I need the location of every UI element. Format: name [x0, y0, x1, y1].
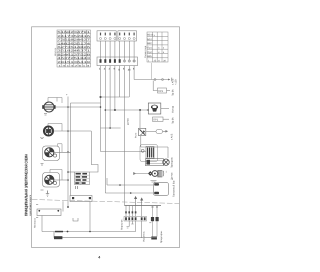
wire y103 link: [71, 102, 101, 104]
junction at (90,231.5): [89, 231, 91, 233]
fuse contact blocks: [151, 217, 154, 221]
wire fan to terminal: [161, 108, 170, 110]
svg-text:8246137528: 8246137528: [57, 53, 91, 56]
wire L2 to bus: [54, 179, 68, 181]
svg-text:ПРИНЦИПИАЛЬНАЯ ЭЛЕКТРИЧЕСКАЯ С: ПРИНЦИПИАЛЬНАЯ ЭЛЕКТРИЧЕСКАЯ СХЕМА: [24, 154, 29, 216]
junctions on bus x68: [67, 106, 69, 208]
box A lead stubs: [75, 186, 77, 189]
H1 bracket stub: [56, 98, 58, 102]
connector X1 housing (two blocks): [97, 31, 137, 41]
svg-text:Схема соед.: Схема соед.: [144, 45, 147, 58]
svg-text:1482635174: 1482635174: [57, 42, 91, 45]
svg-text:4: 4: [98, 256, 100, 260]
fuse F2: [153, 117, 164, 121]
svg-text:7351824637: 7351824637: [57, 39, 91, 42]
switch bank drop wires: [126, 206, 142, 217]
box C bottom-left: [37, 209, 61, 216]
svg-text:ПР1: ПР1: [153, 119, 159, 122]
cigarette lighter (cylinder): [146, 159, 164, 166]
ignition switch assembly: [140, 145, 158, 162]
fuel tank / battery box: [153, 183, 168, 196]
junction at (140,110): [139, 109, 141, 111]
box B clamp symbol: [73, 218, 78, 221]
junction at (100.5,97): [100, 96, 102, 98]
connector X2 pins 6-8 (sockets): [123, 60, 135, 62]
fuse legs: [153, 206, 158, 237]
M1 mounting mark: [41, 137, 44, 140]
box C side ticks: [36, 205, 38, 218]
wire from table T2 down: [151, 63, 153, 80]
junction at (100.5,107): [100, 106, 102, 108]
headlamp H1: [42, 98, 101, 116]
wire F2 to terminal: [163, 118, 169, 120]
relay/diode box K1: [139, 110, 141, 128]
horizontal link y97: [101, 96, 130, 98]
svg-text:6273514826: 6273514826: [57, 46, 91, 49]
wire M1 to regulator: [53, 130, 91, 132]
arrow terminal to battery: [168, 79, 170, 81]
fan unit box: [148, 103, 161, 114]
connector X1 pin marks 1-8: [100, 33, 135, 36]
bus vertical wires from X2: [101, 66, 135, 206]
svg-text:Указатель: Указатель: [143, 230, 146, 242]
svg-text:ВК5: ВК5: [147, 55, 152, 58]
junction at (67.5,231.5): [67, 231, 69, 233]
svg-text:ВК2: ВК2: [147, 42, 152, 45]
connector X2 housing: [97, 57, 138, 66]
labels under X2: [99, 68, 135, 72]
page background: [0, 0, 200, 272]
junction at (120,185): [119, 184, 121, 186]
up arrow riser 1: [135, 197, 137, 206]
wire bus to ignition switch S1: [101, 151, 147, 153]
table T1 (top-left pinout table): [57, 30, 91, 67]
table T2 cell text: [147, 34, 166, 63]
fuse leg terminals: [152, 206, 154, 208]
svg-text:Б14: Б14: [147, 38, 152, 41]
contact strip dark contacts: [125, 217, 146, 220]
fuel tank terminal blocks: [154, 183, 159, 186]
wire bus x70.5: [70, 103, 72, 196]
box C terminal dots: [38, 210, 40, 212]
sensor / starter lower: [134, 173, 149, 175]
ignition switch S1 contact stack: [146, 147, 154, 159]
wire down to box A: [90, 131, 99, 172]
fuse F3: [156, 130, 163, 134]
title text (vertical, rotated): [24, 154, 32, 216]
horizontal link y128: [101, 127, 121, 129]
horn/motor M1: [41, 124, 99, 173]
wire K1 to fuse F3: [146, 130, 156, 132]
switch bank contact strip: [124, 217, 147, 222]
junction at (68,172): [67, 171, 69, 173]
svg-text:Топливный бак: Топливный бак: [173, 179, 176, 197]
fuse foot block on ground bus: [151, 237, 157, 240]
tick mark: [149, 222, 151, 224]
junction at (110.1,128): [109, 127, 111, 129]
wire bus to box A: [68, 171, 75, 173]
table T2 (top-right): [147, 32, 168, 62]
svg-text:датчик: датчик: [127, 118, 130, 125]
svg-text:ПР2: ПР2: [158, 90, 164, 93]
wire drop to fuse F1: [153, 81, 157, 91]
H1 mounting marks: [44, 114, 47, 116]
dark segment on ground bus 1: [55, 231, 63, 233]
horizontal link y110 to fan box: [105, 109, 148, 111]
svg-text:5168234791: 5168234791: [57, 31, 91, 34]
S1 contact bars: [147, 148, 154, 158]
lamp unit L2: [41, 170, 69, 191]
lamp unit L1: [41, 144, 71, 165]
fuse F1 top right: [158, 88, 167, 93]
box B terminal squares: [72, 197, 74, 199]
wire H1 to bus: [56, 106, 101, 108]
connector X2 socket center pins: [124, 60, 135, 61]
svg-text:На массу: На массу: [34, 217, 37, 228]
svg-text:Датчик: Датчик: [171, 171, 174, 180]
svg-text:2815136419: 2815136419: [57, 61, 91, 64]
L2 bracket: [50, 170, 62, 181]
terminal circle (155,79.5): [154, 79, 156, 81]
svg-text:Прикурив.: Прикурив.: [171, 156, 174, 168]
svg-text:4637251843: 4637251843: [57, 57, 91, 60]
box A indicator circle: [80, 182, 82, 184]
wire y147: [141, 136, 168, 158]
up arrow riser 2: [141, 198, 143, 206]
ground bus wire 2: [54, 237, 157, 239]
wire box C to ground bus: [41, 216, 43, 232]
relay box B: [70, 196, 92, 202]
L1 mounting marks: [41, 164, 44, 166]
svg-text:Пр2: Пр2: [147, 51, 152, 54]
ignition terminal circle: [141, 149, 144, 152]
wire divider to box C: [62, 201, 64, 211]
switch bank top bar: [125, 205, 162, 207]
junction at (114.9,110): [114, 109, 116, 111]
divider dashed line: [32, 200, 179, 204]
connector X1 pin sockets 1-8: [99, 37, 135, 39]
wire y192 to fuel tank: [105, 192, 153, 194]
wire L1 to bus: [54, 151, 71, 153]
L2 mounting mark: [41, 189, 44, 191]
svg-text:Реле: Реле: [135, 132, 138, 138]
schematic border frame: [32, 27, 180, 248]
svg-text:2417352816: 2417352816: [57, 35, 91, 38]
svg-text:однокабинной модели: однокабинной модели: [29, 195, 32, 216]
wire with ground foot: [127, 221, 130, 228]
svg-text:Пр 8А: Пр 8А: [172, 89, 175, 96]
arrow terminal after F3: [163, 130, 168, 132]
terminal circle (162.5,79.5): [162, 79, 164, 81]
regulator box A (with glyphs): [75, 172, 90, 185]
right side labels: [171, 78, 178, 197]
wire to ground bus 1: [135, 221, 137, 232]
wire box B to ground bus: [89, 202, 91, 232]
svg-text:Пр 8А: Пр 8А: [172, 117, 175, 124]
table T1 cell text: [57, 31, 91, 67]
left vertical bus x68 / x70.5: [67, 97, 69, 208]
junction at (130.7,193): [130, 192, 132, 194]
switch bank upper contacts: [125, 211, 136, 213]
dark block on ground bus 2: [54, 236, 62, 239]
ground symbol below L2: [46, 191, 49, 197]
ground bus left step: [53, 232, 55, 238]
wires X1 to X2: [101, 41, 135, 60]
terminal bar: [171, 78, 173, 82]
junction at (105.3,110): [105, 109, 107, 111]
svg-text:1 3 1 4 2 6 1 3: 1 3 1 4 2 6 1 3: [58, 64, 91, 67]
svg-text:Переключ.: Переключ.: [121, 218, 124, 230]
wire to ground bus 2: [141, 221, 143, 238]
L1 bracket: [58, 144, 63, 152]
ground bus wire 1: [42, 231, 136, 233]
wire F1 to terminal: [167, 90, 171, 92]
svg-text:Предохран.: Предохран.: [160, 230, 163, 243]
connector X2 pins 1-5 (filled): [100, 59, 121, 63]
svg-text:Пр1: Пр1: [147, 47, 152, 50]
wire with foot: [131, 221, 133, 224]
svg-text:Мотор: Мотор: [172, 105, 175, 113]
svg-text:Жгут пр.: Жгут пр.: [54, 47, 57, 56]
svg-text:+12В: +12В: [175, 79, 178, 85]
wire y183.5 to fuel tank: [107, 178, 153, 185]
wire y79.5 top right: [134, 79, 170, 81]
svg-text:3518246371: 3518246371: [57, 50, 91, 53]
svg-text:к АКБ: к АКБ: [171, 133, 174, 140]
